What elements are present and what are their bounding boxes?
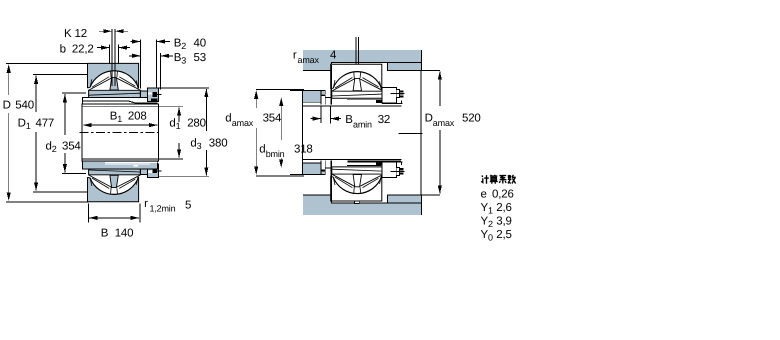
sleeve bore line bottom / d1 extension [82, 158, 183, 160]
K slot extension lines [112, 29, 115, 86]
B2/B3 extension lines [141, 39, 161, 89]
lubrication hole [356, 37, 359, 72]
svg-text:1,2min: 1,2min [150, 204, 176, 214]
bearing left face thick lower [330, 161, 332, 201]
svg-text:d: d [259, 144, 265, 156]
lubrication hole tip [356, 72, 359, 75]
svg-text:4: 4 [330, 50, 337, 62]
B amin extension lines [321, 107, 331, 124]
d2 extension lines [62, 93, 86, 174]
svg-text:d: d [225, 113, 231, 125]
washer notch bottom plate [134, 165, 139, 167]
housing lower section [303, 195, 421, 215]
svg-text:0,26: 0,26 [492, 188, 514, 200]
washer lines in bottom plate [105, 163, 158, 165]
shaft step edge [301, 91, 303, 175]
sleeve flange top face [82, 97, 157, 104]
sleeve body rectangle B1 [82, 104, 158, 161]
sleeve step rects upper [321, 95, 331, 104]
svg-text:540: 540 [15, 100, 34, 112]
B dimension line [89, 217, 100, 219]
svg-text:b: b [60, 43, 66, 55]
svg-text:318: 318 [294, 144, 313, 156]
svg-text:520: 520 [462, 113, 481, 125]
svg-text:53: 53 [194, 52, 206, 64]
d3 dimension line [205, 89, 207, 176]
svg-text:22,2: 22,2 [72, 43, 94, 55]
svg-text:D: D [425, 113, 433, 125]
table header (Chinese): simplified glyph strokes [481, 175, 516, 184]
abutment ring strip lower [302, 171, 325, 175]
svg-text:K: K [64, 28, 72, 40]
svg-text:5: 5 [185, 200, 191, 212]
axis centerline left view [80, 132, 159, 134]
svg-text:140: 140 [115, 227, 134, 239]
lock washer plate upper [347, 100, 402, 104]
shaft shoulder block upper [302, 91, 321, 103]
sleeve step rects lower [321, 161, 331, 170]
svg-text:2,5: 2,5 [496, 229, 511, 241]
B1 dimension line [83, 124, 95, 126]
axis tick right view [399, 133, 423, 135]
b dimension arrows [97, 47, 109, 49]
housing bore line upper right [388, 61, 422, 63]
svg-text:r: r [293, 50, 297, 62]
shaft surface line upper [302, 105, 401, 107]
oil groove mark lower bearing [355, 201, 360, 203]
shaft surface lines [256, 89, 304, 175]
D1 extension lines [33, 74, 88, 191]
d amax dimension line [255, 91, 257, 108]
bearing left face thick upper [330, 65, 332, 105]
svg-text:amax: amax [433, 118, 455, 128]
svg-text:amax: amax [298, 55, 320, 65]
svg-text:280: 280 [187, 118, 206, 130]
svg-text:amax: amax [232, 118, 254, 128]
left view lower half (mirror) [88, 168, 141, 202]
B3 arrows [129, 55, 141, 57]
svg-text:354: 354 [62, 141, 81, 153]
svg-text:r: r [144, 198, 148, 210]
svg-text:e: e [481, 188, 487, 200]
svg-text:477: 477 [36, 118, 55, 130]
svg-text:amin: amin [353, 120, 372, 130]
D amax dimension line [439, 72, 441, 107]
mounted bearing lower half [331, 167, 384, 201]
sleeve bore line top / d1 extension [82, 105, 183, 107]
washer bent tab upper right [376, 100, 382, 104]
svg-text:B: B [101, 227, 109, 239]
washer bent tab lower right [376, 162, 382, 166]
B extension lines [88, 204, 140, 223]
shaft surface line lower [302, 158, 401, 160]
B2 arrows [131, 41, 141, 43]
svg-text:40: 40 [194, 38, 206, 50]
lock nut mounted lower [382, 162, 405, 178]
b slot extension lines [109, 45, 118, 64]
svg-text:32: 32 [378, 114, 390, 126]
D amax extension lines [421, 70, 440, 195]
B amin arrows [311, 118, 321, 120]
D dimension line [8, 65, 10, 95]
lock washer plate lower [348, 161, 402, 163]
svg-text:208: 208 [128, 111, 147, 123]
abutment ring strip upper [302, 91, 325, 95]
svg-text:bmin: bmin [266, 149, 285, 159]
housing upper section [303, 50, 421, 70]
shaft shoulder block lower [302, 163, 321, 175]
K dimension arrows [99, 30, 112, 32]
svg-text:D: D [3, 100, 11, 112]
svg-text:2,6: 2,6 [496, 202, 511, 214]
sleeve flange plate bottom (sectioned) [82, 161, 157, 169]
d1 dimension line [178, 108, 180, 123]
housing bore line lower [332, 202, 422, 204]
d bmin dimension line [280, 98, 282, 140]
lock nut mounted upper [382, 88, 405, 104]
d2 dimension line [64, 94, 66, 135]
d3 extension lines [159, 88, 209, 177]
housing right face line [420, 70, 422, 195]
svg-text:3,9: 3,9 [496, 215, 511, 227]
svg-text:12: 12 [75, 28, 87, 40]
mounted bearing upper half [331, 64, 384, 201]
D1 dimension line [35, 76, 37, 112]
svg-text:354: 354 [263, 113, 282, 125]
D extension lines [6, 63, 88, 201]
svg-text:380: 380 [209, 137, 228, 149]
left view: bearing with adapter sleeve, upper half [88, 63, 162, 201]
